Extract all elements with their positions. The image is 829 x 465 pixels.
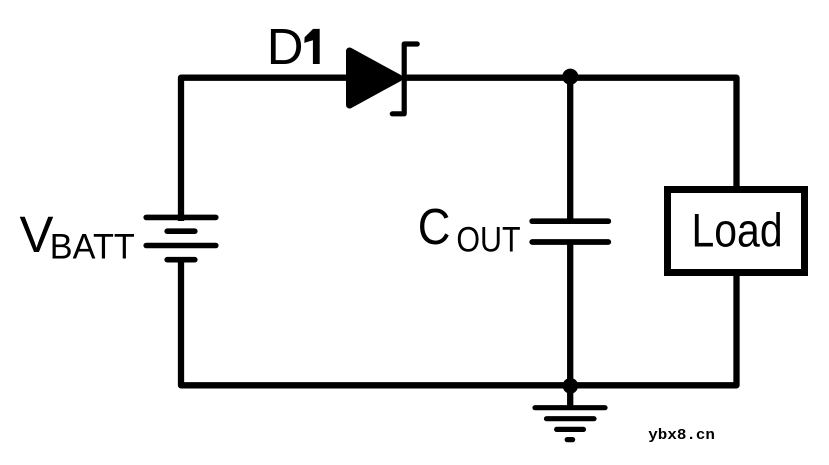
svg-text:BATT: BATT	[50, 226, 135, 266]
wire capacitor bottom lead	[567, 242, 573, 385]
battery VBATT	[146, 217, 216, 259]
svg-text:ybx8.cn: ybx8.cn	[648, 428, 715, 444]
capacitor COUT	[532, 221, 608, 242]
wire capacitor top lead	[567, 75, 573, 221]
load box	[668, 190, 805, 273]
node output junction dot (top)	[562, 69, 578, 85]
diode D1 anode triangle	[350, 51, 400, 105]
node ground junction dot (bottom)	[563, 378, 579, 394]
wire ground stub	[567, 385, 573, 406]
wire top-right segment (diode cathode to load branch corner)	[403, 78, 737, 189]
diode D1 schottky cathode bar	[392, 44, 417, 114]
svg-text:Load: Load	[692, 204, 783, 257]
label D1	[267, 18, 320, 75]
svg-text:C: C	[418, 198, 451, 255]
wire top-left segment (battery + up to diode anode)	[181, 78, 352, 221]
svg-text:V: V	[20, 206, 54, 263]
svg-text:D: D	[267, 18, 304, 75]
wire bottom-right segment (load bottom to ground rail)	[569, 273, 737, 385]
svg-text:OUT: OUT	[456, 219, 520, 259]
wire bottom-left segment (battery - down to ground rail)	[181, 257, 572, 385]
ground	[535, 408, 605, 440]
